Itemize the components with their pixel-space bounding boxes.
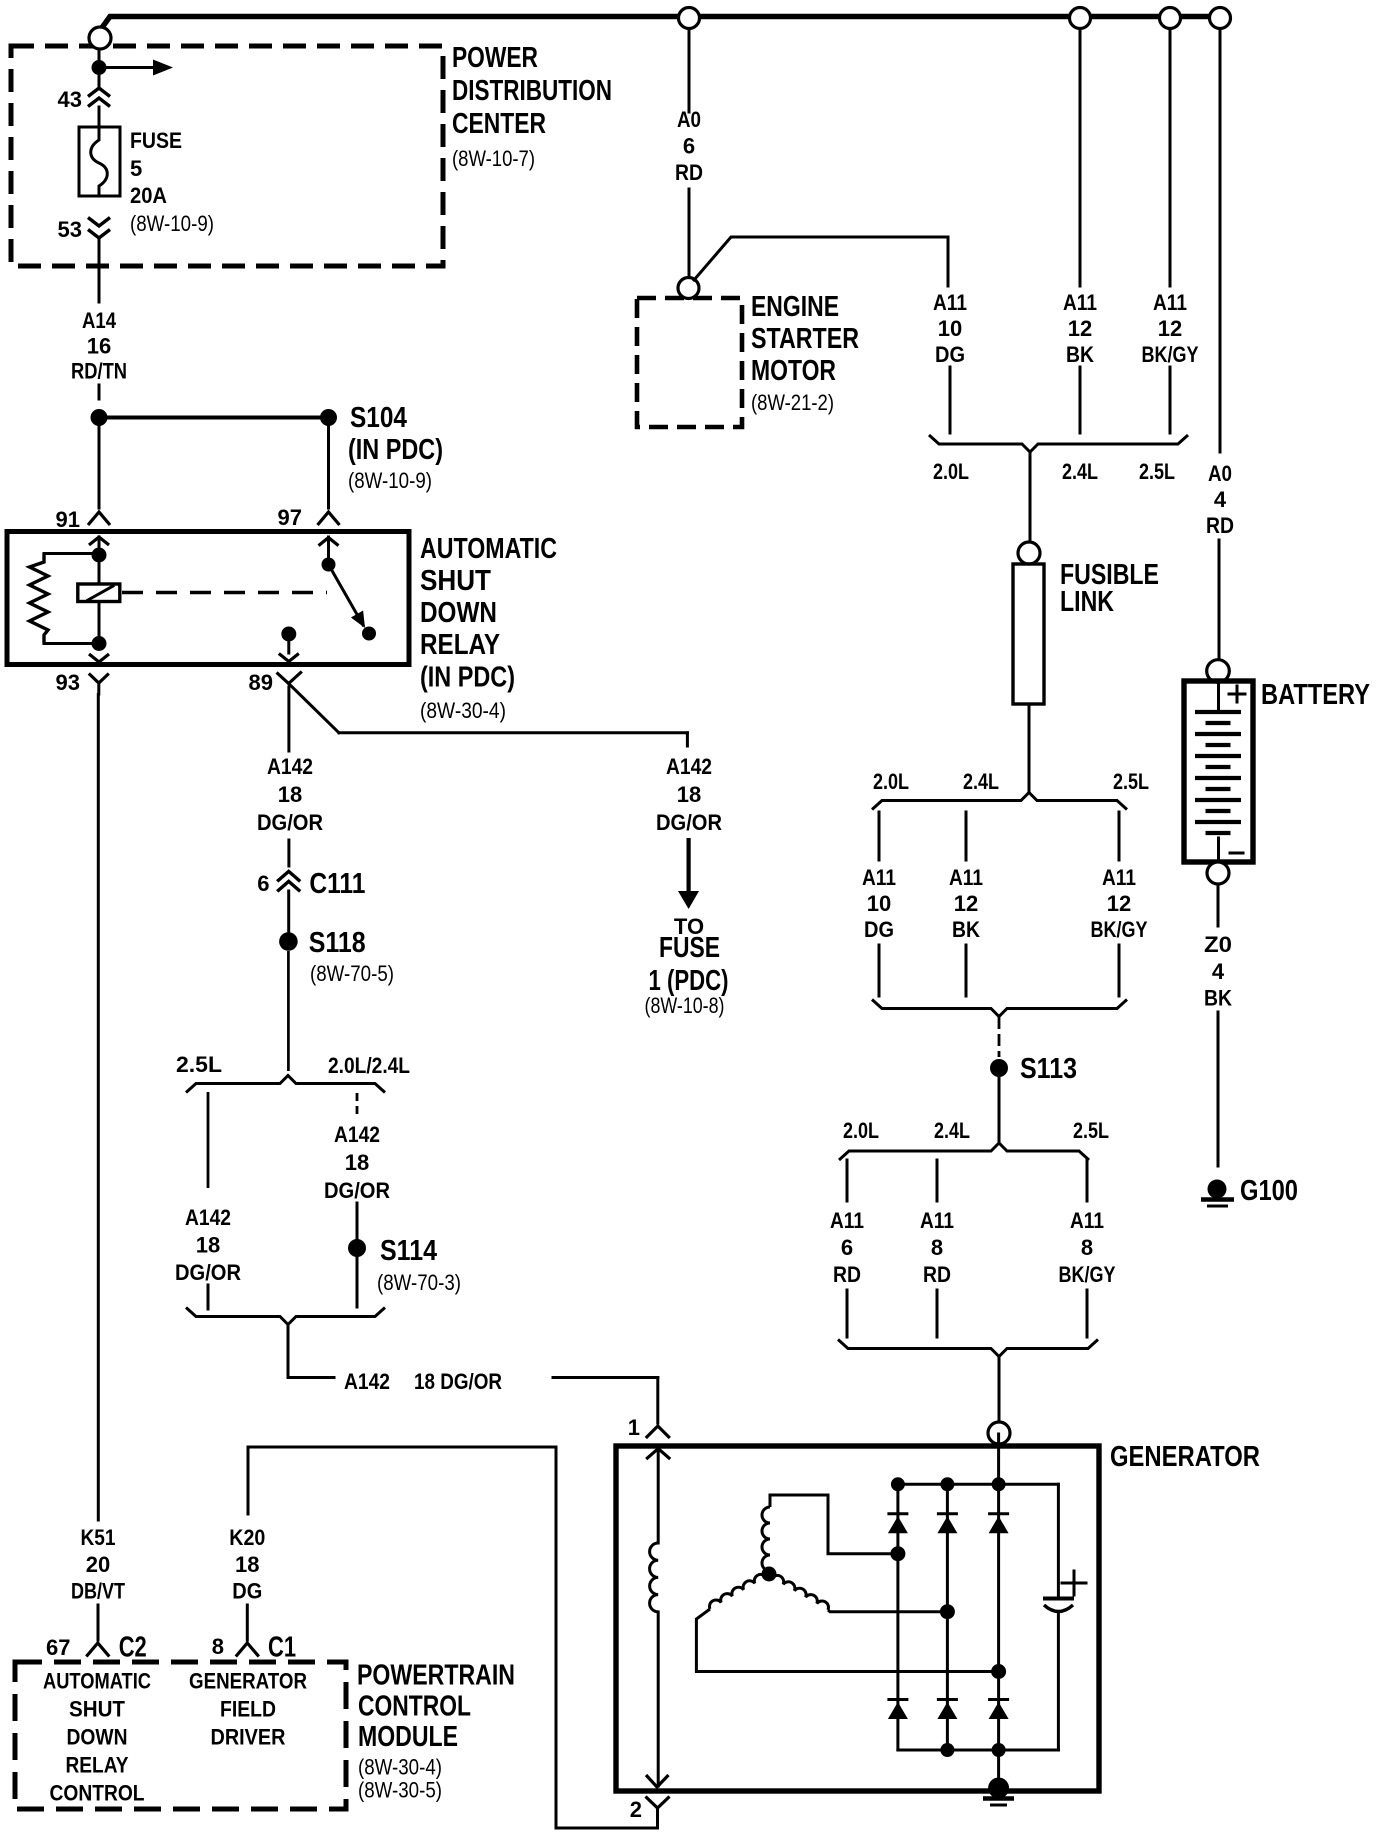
svg-text:A11: A11 xyxy=(1153,290,1187,315)
svg-text:12: 12 xyxy=(1158,316,1182,341)
svg-text:6: 6 xyxy=(257,871,269,896)
brace split engines xyxy=(872,769,1149,810)
svg-text:(8W-10-9): (8W-10-9) xyxy=(130,211,214,236)
generator rectifier bridge xyxy=(887,1434,1058,1788)
wire top battery feed bus xyxy=(101,17,1220,30)
generator box xyxy=(616,1441,1260,1791)
generator field coil xyxy=(646,1448,670,1787)
generator stator windings xyxy=(696,1495,993,1672)
wire A11 12 BK/GY xyxy=(1142,29,1199,433)
relay contact 89 xyxy=(279,627,299,662)
wire A0 4 RD xyxy=(1206,29,1234,660)
svg-text:STARTER: STARTER xyxy=(751,323,859,355)
svg-text:A142: A142 xyxy=(267,754,313,779)
wire S104 to relay pin 91 xyxy=(98,426,101,508)
svg-text:12: 12 xyxy=(1107,891,1131,916)
wire arrow to other circuits xyxy=(106,60,173,76)
svg-text:RD: RD xyxy=(675,160,703,185)
node battery - terminal xyxy=(1207,862,1229,884)
wire A11 8 BK/GY xyxy=(1059,1160,1116,1337)
power distribution center box xyxy=(11,42,612,266)
svg-text:DG/OR: DG/OR xyxy=(257,810,323,835)
wire pin89 to fuse 1 feed xyxy=(339,733,688,746)
wire A11 8 RD xyxy=(920,1160,954,1337)
pin 67 connector C2 xyxy=(46,1631,147,1663)
svg-text:(8W-70-3): (8W-70-3) xyxy=(377,1270,461,1295)
svg-text:A14: A14 xyxy=(82,308,117,333)
pin 53 connector xyxy=(58,217,110,302)
capacitor (noise suppressor) xyxy=(1043,1484,1086,1750)
svg-text:6: 6 xyxy=(683,134,695,159)
svg-text:RELAY: RELAY xyxy=(66,1753,129,1778)
svg-text:K20: K20 xyxy=(229,1525,265,1550)
node generator B+ terminal xyxy=(988,1422,1010,1444)
svg-text:A142: A142 xyxy=(666,754,712,779)
svg-text:SHUT: SHUT xyxy=(420,565,491,597)
svg-text:(IN PDC): (IN PDC) xyxy=(420,662,515,694)
svg-text:BK: BK xyxy=(952,917,980,942)
svg-text:RD: RD xyxy=(1206,513,1234,538)
wire label A142 18 DG/OR (left) xyxy=(257,754,323,866)
wire 2.0L/2.4L branch xyxy=(324,1093,390,1238)
wire A11 10 DG (2.0L) xyxy=(862,812,896,996)
svg-text:97: 97 xyxy=(278,505,302,530)
svg-text:MOTOR: MOTOR xyxy=(751,355,836,387)
svg-text:C111: C111 xyxy=(309,868,365,900)
svg-text:DRIVER: DRIVER xyxy=(211,1725,286,1750)
node bus junction starter feed xyxy=(679,8,700,29)
svg-text:C2: C2 xyxy=(119,1631,147,1663)
wire label A14 16 RD/TN xyxy=(71,308,127,399)
wire bus to starter xyxy=(675,29,703,276)
svg-text:12: 12 xyxy=(1068,316,1092,341)
svg-text:BK/GY: BK/GY xyxy=(1142,342,1199,367)
svg-text:DG: DG xyxy=(232,1579,262,1604)
relay coil symbol xyxy=(78,584,120,602)
svg-text:S114: S114 xyxy=(380,1235,437,1267)
svg-text:89: 89 xyxy=(249,670,273,695)
svg-text:2.4L: 2.4L xyxy=(1062,459,1098,484)
svg-text:6: 6 xyxy=(841,1235,853,1260)
svg-text:S113: S113 xyxy=(1020,1053,1077,1085)
svg-text:A142: A142 xyxy=(185,1205,231,1230)
wire S104 to relay pin 97 xyxy=(327,426,330,508)
svg-text:53: 53 xyxy=(58,217,82,242)
svg-text:C1: C1 xyxy=(268,1631,296,1663)
svg-text:RELAY: RELAY xyxy=(420,629,500,661)
fuse 5 20A xyxy=(79,127,214,236)
generator internal ground xyxy=(983,1778,1014,1806)
svg-text:DG/OR: DG/OR xyxy=(656,810,722,835)
svg-text:2.5L: 2.5L xyxy=(176,1052,222,1077)
engine starter motor box xyxy=(637,291,859,427)
svg-text:Z0: Z0 xyxy=(1204,932,1232,957)
dashed actuator link xyxy=(122,591,327,595)
pin 89 xyxy=(249,670,339,733)
svg-text:DG/OR: DG/OR xyxy=(175,1260,241,1285)
svg-text:18: 18 xyxy=(278,782,302,807)
svg-text:DG: DG xyxy=(864,917,894,942)
svg-text:GENERATOR: GENERATOR xyxy=(189,1669,307,1694)
node bus junction A11 BK/GY xyxy=(1160,8,1181,29)
svg-text:A11: A11 xyxy=(1102,865,1136,890)
svg-text:2.5L: 2.5L xyxy=(1139,459,1175,484)
svg-text:(8W-30-5): (8W-30-5) xyxy=(358,1777,442,1802)
svg-text:FUSE: FUSE xyxy=(130,128,182,153)
svg-text:K51: K51 xyxy=(81,1525,116,1550)
wire from bus into PDC xyxy=(98,49,101,61)
svg-text:(8W-10-9): (8W-10-9) xyxy=(348,468,432,493)
node bus junction A11 BK xyxy=(1070,8,1091,29)
node bus entry to PDC xyxy=(89,27,111,49)
svg-text:(8W-30-4): (8W-30-4) xyxy=(358,1754,442,1779)
svg-text:CONTROL: CONTROL xyxy=(50,1781,145,1806)
svg-text:BK: BK xyxy=(1066,342,1094,367)
svg-text:A142: A142 xyxy=(344,1369,390,1394)
svg-text:12: 12 xyxy=(954,891,978,916)
svg-text:4: 4 xyxy=(1212,959,1225,984)
svg-text:(IN PDC): (IN PDC) xyxy=(348,434,443,466)
svg-text:20A: 20A xyxy=(130,183,167,208)
wire A142 18 DG/OR to generator pin 1 xyxy=(288,1358,658,1423)
svg-text:SHUT: SHUT xyxy=(69,1697,126,1722)
relay ASD box xyxy=(7,532,557,724)
relay coil branch xyxy=(89,537,109,662)
svg-text:2.0L: 2.0L xyxy=(843,1118,879,1143)
node splice S113 xyxy=(990,1053,1077,1143)
wire A11 6 RD xyxy=(830,1160,864,1337)
svg-text:93: 93 xyxy=(56,670,80,695)
arrow to fuse 1 xyxy=(645,838,729,1018)
ground G100 xyxy=(1201,1175,1298,1207)
svg-text:2.0L/2.4L: 2.0L/2.4L xyxy=(328,1053,410,1078)
powertrain control module box xyxy=(15,1659,515,1809)
pin 97 xyxy=(278,505,340,530)
wire Z0 4 BK xyxy=(1204,884,1232,1166)
svg-text:18: 18 xyxy=(677,782,701,807)
svg-text:FIELD: FIELD xyxy=(220,1697,276,1722)
svg-text:DOWN: DOWN xyxy=(420,597,497,629)
node splice S104 xyxy=(91,402,444,493)
battery xyxy=(1184,679,1370,862)
svg-text:A11: A11 xyxy=(830,1208,864,1233)
node starter terminal xyxy=(678,278,699,299)
svg-text:A11: A11 xyxy=(920,1208,954,1233)
svg-text:BK: BK xyxy=(1204,986,1232,1011)
brace merge A142 xyxy=(186,1308,385,1361)
svg-text:POWERTRAIN: POWERTRAIN xyxy=(357,1659,515,1691)
svg-text:10: 10 xyxy=(938,316,962,341)
svg-text:18: 18 xyxy=(235,1552,259,1577)
pin 93 xyxy=(56,670,109,695)
svg-text:2.4L: 2.4L xyxy=(963,769,999,794)
svg-text:DG: DG xyxy=(935,342,965,367)
svg-text:S118: S118 xyxy=(309,927,366,959)
svg-text:16: 16 xyxy=(87,333,111,358)
svg-text:8: 8 xyxy=(212,1634,224,1659)
svg-text:4: 4 xyxy=(1214,487,1227,512)
svg-text:91: 91 xyxy=(56,507,80,532)
svg-text:CENTER: CENTER xyxy=(452,108,546,140)
svg-text:A11: A11 xyxy=(1070,1208,1104,1233)
svg-text:BK/GY: BK/GY xyxy=(1091,917,1148,942)
pin 43 connector xyxy=(58,74,110,127)
svg-text:S104: S104 xyxy=(350,402,407,434)
svg-text:A11: A11 xyxy=(1063,290,1097,315)
svg-text:67: 67 xyxy=(46,1635,70,1660)
wire label A142 18 DG/OR (right) xyxy=(656,754,722,835)
svg-text:A11: A11 xyxy=(862,865,896,890)
svg-text:8: 8 xyxy=(1081,1235,1093,1260)
wire starter to A11 splice xyxy=(694,237,967,433)
svg-text:2.4L: 2.4L xyxy=(934,1118,970,1143)
svg-text:CONTROL: CONTROL xyxy=(358,1690,471,1722)
svg-text:AUTOMATIC: AUTOMATIC xyxy=(43,1669,151,1694)
svg-text:43: 43 xyxy=(58,87,82,112)
svg-text:FUSE: FUSE xyxy=(659,932,720,964)
svg-text:DB/VT: DB/VT xyxy=(71,1579,125,1604)
resistor (relay suppression) xyxy=(30,554,93,644)
wire A11 12 BK xyxy=(1063,29,1097,433)
svg-text:GENERATOR: GENERATOR xyxy=(1110,1441,1260,1473)
svg-text:BATTERY: BATTERY xyxy=(1261,679,1370,711)
svg-text:A142: A142 xyxy=(334,1122,380,1147)
relay switch xyxy=(319,537,377,641)
svg-text:G100: G100 xyxy=(1240,1175,1298,1207)
svg-text:DISTRIBUTION: DISTRIBUTION xyxy=(452,75,612,107)
node battery + terminal xyxy=(1207,660,1230,683)
svg-text:(8W-10-8): (8W-10-8) xyxy=(645,993,725,1018)
node bus end battery feed xyxy=(1210,8,1231,29)
svg-text:18: 18 xyxy=(345,1150,369,1175)
svg-text:A11: A11 xyxy=(933,290,967,315)
fusible link xyxy=(1013,559,1159,792)
wire generator field return xyxy=(556,1447,658,1828)
svg-text:(8W-21-2): (8W-21-2) xyxy=(751,390,834,415)
svg-text:BK/GY: BK/GY xyxy=(1059,1262,1116,1287)
svg-text:2: 2 xyxy=(630,1797,642,1822)
svg-text:A0: A0 xyxy=(1208,461,1232,486)
wire K20 18 DG xyxy=(229,1447,556,1640)
svg-text:5: 5 xyxy=(130,156,142,181)
svg-text:LINK: LINK xyxy=(1060,586,1114,618)
node splice S118 xyxy=(279,927,394,1071)
svg-text:(8W-10-7): (8W-10-7) xyxy=(452,146,535,171)
node fusible link terminal xyxy=(1018,542,1040,564)
node splice S114 xyxy=(348,1235,461,1307)
pin 91 xyxy=(56,507,110,532)
svg-text:2.5L: 2.5L xyxy=(1073,1118,1109,1143)
svg-text:20: 20 xyxy=(86,1552,110,1577)
wire K51 20 DB/VT xyxy=(71,695,125,1641)
pin 8 connector C1 xyxy=(212,1631,296,1663)
svg-text:ENGINE: ENGINE xyxy=(751,291,839,323)
svg-text:AUTOMATIC: AUTOMATIC xyxy=(420,533,557,565)
brace merge engine feeds xyxy=(929,435,1188,542)
svg-text:DOWN: DOWN xyxy=(67,1725,128,1750)
svg-text:MODULE: MODULE xyxy=(358,1721,458,1753)
pin 2 generator xyxy=(630,1797,670,1823)
pin 1 generator xyxy=(628,1415,670,1440)
svg-text:RD/TN: RD/TN xyxy=(71,359,127,384)
svg-text:18: 18 xyxy=(196,1232,220,1257)
svg-text:10: 10 xyxy=(867,891,891,916)
brace engine split (2.5L vs 2.0/2.4L) xyxy=(176,1052,410,1093)
brace split generator feeds xyxy=(839,1118,1109,1160)
brace merge to S113 xyxy=(872,1000,1127,1058)
svg-text:2.0L: 2.0L xyxy=(933,459,969,484)
wire 2.5L branch xyxy=(175,1092,241,1309)
wire A11 12 BK (2.4L) xyxy=(949,812,983,996)
wire A11 12 BK/GY (2.5L) xyxy=(1091,812,1148,996)
connector C111 pin 6 xyxy=(257,868,365,933)
svg-text:(8W-70-5): (8W-70-5) xyxy=(310,961,394,986)
svg-text:DG/OR: DG/OR xyxy=(324,1178,390,1203)
svg-text:18 DG/OR: 18 DG/OR xyxy=(414,1369,502,1394)
svg-text:RD: RD xyxy=(833,1262,861,1287)
node fuse feed junction xyxy=(92,60,107,75)
svg-text:(8W-30-4): (8W-30-4) xyxy=(420,698,506,723)
brace merge to generator xyxy=(838,1340,1098,1423)
svg-text:RD: RD xyxy=(923,1262,951,1287)
svg-text:2.5L: 2.5L xyxy=(1113,769,1149,794)
svg-text:A11: A11 xyxy=(949,865,983,890)
svg-text:POWER: POWER xyxy=(452,42,538,74)
svg-text:1: 1 xyxy=(628,1415,640,1440)
wire pin89 down xyxy=(287,687,290,751)
svg-text:2.0L: 2.0L xyxy=(873,769,909,794)
svg-text:A0: A0 xyxy=(677,107,701,132)
svg-text:8: 8 xyxy=(931,1235,943,1260)
